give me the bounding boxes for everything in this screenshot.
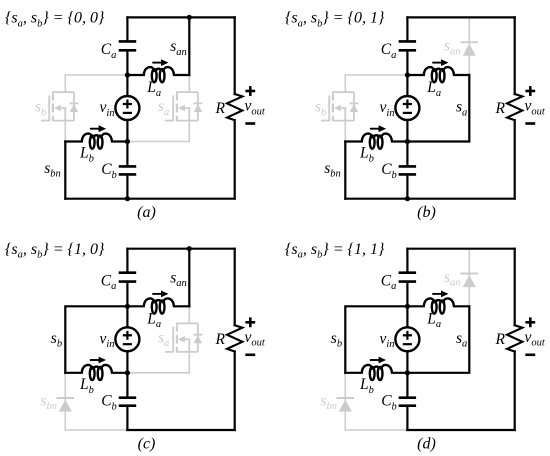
wire: Ca bottom lead to node A (406, 50, 408, 75)
wire: node A to La (407, 74, 423, 76)
wire: node A to vin (126, 306, 128, 327)
node B junction (405, 370, 410, 375)
svg-text:sb: sb (35, 99, 46, 119)
resistor R (507, 94, 522, 120)
capacitor Cbb (399, 166, 417, 174)
transistor sb (off) (41, 92, 78, 121)
svg-text:{sa, sb} = {1, 1}: {sa, sb} = {1, 1} (285, 241, 385, 261)
voltage source vin (115, 327, 139, 351)
svg-text:san: san (170, 38, 187, 58)
svg-text:sbn: sbn (324, 160, 341, 180)
wire: Ca top lead (126, 17, 128, 41)
switch sbn (on): wire to bottom rail (64, 142, 66, 199)
transistor sb (off) (321, 92, 358, 121)
svg-text:vin: vin (100, 330, 115, 350)
switch san (on): wire to top rail (188, 17, 190, 75)
diode san (body diode, off) (461, 274, 478, 288)
svg-text:san: san (444, 38, 461, 58)
transistor sa (off) (165, 323, 202, 352)
switch san (on): wire to top rail (188, 249, 190, 307)
inductor Lb (82, 365, 112, 380)
switch sb (on): wire node A to left branch (65, 306, 127, 373)
svg-text:sbn: sbn (321, 392, 338, 412)
svg-text:Cb: Cb (101, 393, 117, 413)
wire: right edge upper (234, 17, 236, 94)
current arrow iLa (152, 291, 168, 298)
wire: Lb to node B (112, 372, 127, 374)
wire (gray): sb drain from node A (65, 75, 127, 92)
wire: La to right branch corner (174, 74, 189, 76)
svg-text:Ca: Ca (101, 41, 117, 61)
wire: right edge lower (234, 120, 236, 199)
svg-text:Ca: Ca (381, 41, 397, 61)
inductor Lb (362, 365, 392, 380)
wire: top rail (407, 16, 514, 18)
wire: left corner to Lb (345, 140, 362, 142)
switch sa (on): wire to node B (407, 75, 469, 142)
wire: Ca top lead (406, 17, 408, 41)
node B junction (125, 370, 130, 375)
svg-text:vout: vout (525, 329, 546, 349)
wire: top rail (407, 248, 514, 250)
wire: Cb to bottom rail (406, 174, 408, 198)
svg-text:vin: vin (100, 99, 115, 119)
wire: Cb to bottom rail (126, 406, 128, 430)
svg-text:vin: vin (380, 99, 395, 119)
inductor La (424, 298, 454, 313)
label + (vout polarity) (245, 86, 255, 96)
current arrow iLb (370, 357, 386, 364)
svg-text:sa: sa (456, 330, 467, 350)
wire: vin to node B (126, 351, 128, 373)
wire: Lb to node B (392, 372, 407, 374)
svg-text:(d): (d) (417, 435, 436, 452)
node A junction (405, 304, 410, 309)
wire: node A to La (407, 305, 423, 307)
wire: left corner to Lb (345, 372, 362, 374)
capacitor Caa (119, 41, 137, 50)
wire: bottom rail (345, 198, 514, 200)
label + (vout polarity) (525, 86, 535, 96)
wire (gray): san branch (468, 249, 470, 307)
wire: node A to vin (406, 75, 408, 96)
junction: bottom rail / Cb (125, 196, 130, 201)
node B junction (125, 139, 130, 144)
wire: right edge upper (234, 249, 236, 326)
resistor R (227, 325, 242, 351)
wire: Ca top lead (126, 249, 128, 273)
switch sb (on): wire node A to left branch (345, 306, 407, 373)
wire: Lb to node B (392, 140, 407, 142)
svg-text:sbn: sbn (41, 392, 58, 412)
switch sbn (on): wire to bottom rail (344, 142, 346, 199)
inductor La (144, 67, 174, 82)
wire: vin to node B (406, 120, 408, 142)
current arrow iLb (90, 125, 106, 132)
wire: Lb to node B (112, 140, 127, 142)
svg-text:sbn: sbn (44, 160, 61, 180)
wire: right edge upper (514, 17, 516, 94)
svg-text:R: R (495, 331, 506, 348)
node A junction (405, 72, 410, 77)
wire: node A to La (127, 305, 143, 307)
label + (vout polarity) (525, 317, 535, 327)
svg-text:La: La (146, 79, 161, 99)
wire (gray): sbn branch (345, 373, 407, 430)
wire: node B to Cb (406, 373, 408, 398)
current arrow iLa (432, 59, 448, 66)
resistor R (507, 325, 522, 351)
wire: right edge upper (514, 249, 516, 326)
svg-text:R: R (215, 100, 226, 117)
wire: vin to node B (126, 120, 128, 142)
svg-text:san: san (170, 269, 187, 289)
label - (vout polarity) (525, 122, 535, 125)
wire: top rail (127, 248, 234, 250)
wire (gray): sa drain lead (188, 306, 190, 323)
wire: La to right branch corner (174, 305, 189, 307)
capacitor Ccb (119, 398, 137, 406)
wire: node B to Cb (126, 373, 128, 398)
wire: right edge lower (234, 352, 236, 431)
switch sa (on): wire to node B (407, 306, 469, 373)
resistor R (227, 94, 242, 120)
diode san (body diode, off) (461, 42, 478, 56)
capacitor Cab (119, 166, 137, 174)
wire (gray): sbn branch (65, 373, 127, 430)
inductor La (424, 67, 454, 82)
wire (gray): sa source to node B (127, 121, 189, 142)
svg-text:vout: vout (245, 98, 266, 118)
wire: node B to Cb (126, 142, 128, 167)
junction: top rail / san (187, 246, 192, 251)
wire: bottom rail (407, 429, 514, 431)
wire: node A to vin (406, 306, 408, 327)
transistor sa (off) (165, 92, 202, 121)
svg-text:{sa, sb} = {0, 0}: {sa, sb} = {0, 0} (5, 10, 105, 30)
capacitor Cdb (399, 398, 417, 406)
current arrow iLa (432, 291, 448, 298)
svg-text:vout: vout (525, 98, 546, 118)
label - (vout polarity) (245, 122, 255, 125)
svg-text:sb: sb (51, 330, 62, 350)
node A junction (125, 304, 130, 309)
svg-text:sb: sb (315, 99, 326, 119)
diode sbn (body diode, off) (337, 398, 354, 412)
svg-text:sa: sa (158, 329, 169, 349)
wire: Cb to bottom rail (126, 174, 128, 198)
wire: La to right branch corner (454, 74, 469, 76)
svg-text:R: R (215, 331, 226, 348)
diode sbn (body diode, off) (57, 398, 74, 412)
junction: bottom rail / Cb (405, 196, 410, 201)
wire: Cb to bottom rail (406, 406, 408, 430)
voltage source vin (115, 96, 139, 120)
svg-text:sa: sa (158, 98, 169, 118)
wire: bottom rail (65, 198, 234, 200)
svg-text:Ca: Ca (101, 272, 117, 292)
wire: top rail (127, 16, 234, 18)
current arrow iLa (152, 59, 168, 66)
svg-text:san: san (444, 269, 461, 289)
svg-text:La: La (426, 310, 441, 330)
wire: vin to node B (406, 351, 408, 373)
wire (gray): sa source to node B (127, 352, 189, 373)
wire: left corner to Lb (65, 140, 82, 142)
inductor Lb (362, 134, 392, 149)
svg-text:R: R (495, 100, 506, 117)
svg-text:La: La (146, 310, 161, 330)
wire: node A to vin (126, 75, 128, 96)
wire: node B to Cb (406, 142, 408, 167)
wire: Ca top lead (406, 249, 408, 273)
voltage source vin (395, 96, 419, 120)
capacitor Cba (399, 41, 417, 50)
svg-text:vout: vout (245, 329, 266, 349)
wire (gray): san branch (468, 17, 470, 75)
svg-text:{sa, sb} = {1, 0}: {sa, sb} = {1, 0} (5, 241, 105, 261)
wire: right edge lower (514, 120, 516, 199)
svg-text:sa: sa (456, 99, 467, 119)
inductor Lb (82, 134, 112, 149)
wire (gray): sb source to left corner (344, 121, 346, 142)
wire: left corner to Lb (65, 372, 82, 374)
label - (vout polarity) (245, 353, 255, 356)
svg-text:Ca: Ca (381, 272, 397, 292)
wire: Ca bottom lead to node A (406, 282, 408, 307)
inductor La (144, 298, 174, 313)
wire (gray): sb source to left corner (64, 121, 66, 142)
svg-text:(b): (b) (417, 204, 436, 221)
svg-text:La: La (426, 79, 441, 99)
wire: right edge lower (514, 352, 516, 431)
wire: La to right branch corner (454, 305, 469, 307)
node B junction (405, 139, 410, 144)
svg-text:sb: sb (331, 330, 342, 350)
voltage source vin (395, 327, 419, 351)
node A junction (125, 72, 130, 77)
svg-text:(a): (a) (137, 204, 156, 221)
wire: Ca bottom lead to node A (126, 282, 128, 307)
svg-text:Cb: Cb (381, 393, 397, 413)
svg-text:Cb: Cb (101, 161, 117, 181)
wire: bottom rail (127, 429, 234, 431)
capacitor Cca (119, 273, 137, 282)
label - (vout polarity) (525, 353, 535, 356)
svg-text:{sa, sb} = {0, 1}: {sa, sb} = {0, 1} (285, 10, 385, 30)
svg-text:(c): (c) (138, 435, 156, 452)
svg-text:Cb: Cb (381, 161, 397, 181)
wire: node A to La (127, 74, 143, 76)
label + (vout polarity) (245, 317, 255, 327)
junction: top rail / san (187, 15, 192, 20)
current arrow iLb (370, 125, 386, 132)
svg-text:vin: vin (380, 330, 395, 350)
wire (gray): sb drain from node A (345, 75, 407, 92)
capacitor Cda (399, 273, 417, 282)
current arrow iLb (90, 357, 106, 364)
wire: Ca bottom lead to node A (126, 50, 128, 75)
wire (gray): sa drain lead (188, 75, 190, 92)
